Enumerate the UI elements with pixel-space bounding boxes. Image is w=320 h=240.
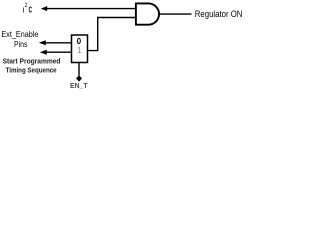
- svg-text:2: 2: [25, 2, 28, 9]
- node Start Programmed Timing Sequence label: [3, 57, 61, 75]
- arrowhead on I2C wire (pointing left): [41, 6, 47, 11]
- diamond arrowhead EN_T (pointing down): [76, 75, 82, 81]
- mux select box: [72, 35, 88, 63]
- wire mux input 0 to Ext_Enable pins: [46, 42, 72, 44]
- wire mux output to AND gate bottom input: [88, 18, 136, 51]
- svg-text:Ext_Enable: Ext_Enable: [1, 29, 38, 39]
- pin label 0: [77, 38, 80, 43]
- svg-text:EN_T: EN_T: [70, 83, 88, 90]
- node Ext_Enable Pins label: [1, 29, 38, 49]
- arrowhead on mux input 1 wire (pointing left): [40, 50, 47, 55]
- svg-text:C: C: [29, 6, 33, 15]
- wire I2C to AND gate top input: [46, 8, 136, 10]
- svg-text:Start Programmed: Start Programmed: [3, 57, 61, 66]
- svg-text:Regulator ON: Regulator ON: [195, 9, 243, 19]
- wire mux to EN_T: [78, 63, 80, 76]
- node EN_T label: [70, 83, 88, 90]
- svg-text:Timing Sequence: Timing Sequence: [6, 65, 57, 74]
- svg-text:1: 1: [77, 45, 82, 55]
- pin label 1: [77, 45, 82, 55]
- svg-text:Pins: Pins: [14, 39, 27, 49]
- node Regulator ON label: [195, 9, 243, 19]
- AND gate U1: [136, 3, 159, 24]
- node I2C label: [22, 2, 32, 14]
- wire AND gate output to Regulator ON: [159, 13, 192, 15]
- wire mux input 1 to Ext_Enable pins: [47, 51, 72, 53]
- arrowhead on mux input 0 wire (pointing left): [39, 40, 46, 45]
